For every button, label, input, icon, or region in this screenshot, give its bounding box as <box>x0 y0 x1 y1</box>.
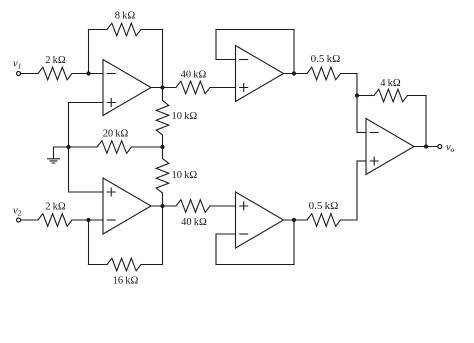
wire U1 output to 40k <box>151 87 176 89</box>
svg-text:2 kΩ: 2 kΩ <box>45 55 66 66</box>
node B junction dot (U1 out / 8k / 10k / 40k) <box>160 85 164 89</box>
resistor 40 kOhm (top) <box>176 81 210 94</box>
svg-text:40 kΩ: 40 kΩ <box>181 70 207 81</box>
wire R 2k to op-amp U1 inverting input, junction at node A <box>72 73 103 75</box>
svg-text:16 kΩ: 16 kΩ <box>113 276 139 287</box>
wire U4 output to node J <box>284 219 308 221</box>
wire into U5 inverting input <box>357 132 366 134</box>
resistor 40 kOhm (bottom) <box>176 200 210 213</box>
node v1 input terminal <box>17 72 21 76</box>
svg-text:0.5 kΩ: 0.5 kΩ <box>311 53 341 65</box>
svg-text:2 kΩ: 2 kΩ <box>45 202 66 213</box>
resistor 20 kOhm <box>97 141 132 154</box>
wire 0.5k bottom to corner <box>341 219 358 221</box>
wire U2 output to 40k <box>151 205 176 207</box>
wire U3 feedback down to inverting input level <box>215 30 217 60</box>
wire U4 feedback bottom rail <box>216 264 294 266</box>
wire 16k feedback up to U2 output node E <box>162 206 164 265</box>
wire 4k right segment <box>408 95 427 97</box>
wire node A up to 8k feedback rail <box>88 30 90 74</box>
wire up to U5 noninverting input <box>356 161 358 220</box>
op-amp U4 (bottom buffer, plus on top) <box>236 192 284 248</box>
resistor 10 kOhm (lower) <box>156 159 169 194</box>
resistor 4 kOhm <box>374 89 408 102</box>
wire node G to 4k <box>357 95 374 97</box>
node H junction dot (U5 out / 4k) <box>424 144 428 148</box>
resistor 10 kOhm (upper) <box>156 101 169 136</box>
wire 8k rail right segment <box>141 29 163 31</box>
wire 20k to node D <box>132 146 163 148</box>
resistor 16 kOhm <box>107 258 141 271</box>
node D junction dot (10k/10k/20k) <box>160 145 164 149</box>
node J junction dot (U4 out / feedback / 0.5k) <box>292 218 296 222</box>
wire lower 10k to node E <box>162 193 164 206</box>
wire U4 feedback up to inverting input level <box>215 234 217 265</box>
svg-text:0.5 kΩ: 0.5 kΩ <box>309 200 339 212</box>
wire node D down to lower 10k <box>162 147 164 159</box>
wire 0.5k top to corner <box>341 73 358 75</box>
wire node I down to 16k rail <box>88 220 90 265</box>
wire v2 terminal to R 2k <box>21 219 38 221</box>
wire 40k to buffer U4 noninverting input <box>210 205 236 207</box>
wire down to U5 inverting input, through node G <box>356 74 358 133</box>
wire upper 10k to node D <box>162 135 164 147</box>
wire 8k rail left segment <box>89 29 108 31</box>
ground symbol <box>48 147 60 163</box>
wire v1 terminal to R 2k <box>21 73 38 75</box>
svg-text:4 kΩ: 4 kΩ <box>380 78 401 89</box>
resistor 8 kOhm <box>107 23 141 36</box>
op-amp U3 (top buffer, minus on top) <box>236 46 284 102</box>
wire 16k rail right segment <box>141 264 163 266</box>
node I junction dot <box>86 218 90 222</box>
svg-text:40 kΩ: 40 kΩ <box>181 217 207 228</box>
svg-text:v1: v1 <box>13 59 21 71</box>
svg-text:20 kΩ: 20 kΩ <box>103 129 129 140</box>
wire into U5 noninverting input <box>357 160 366 162</box>
resistor 0.5 kOhm (bottom) <box>307 214 341 227</box>
wire U4 feedback into inverting input <box>216 233 236 235</box>
node E junction dot (U2 out / 16k / 10k / 40k) <box>160 204 164 208</box>
svg-text:8 kΩ: 8 kΩ <box>115 11 136 22</box>
op-amp U5 (output stage, minus on top) <box>366 119 414 175</box>
resistor 0.5 kOhm (top) <box>307 67 341 80</box>
wire U3 feedback into inverting input <box>216 59 236 61</box>
wire 8k feedback down to U1 output node B <box>162 30 164 88</box>
node G junction dot (0.5k / 4k feedback) <box>355 93 359 97</box>
wire vertical bus x=68.5 from U1 + input to U2 + input <box>68 103 70 193</box>
resistor 2 kOhm (bottom) <box>38 214 72 227</box>
wire 40k to buffer U3 noninverting input <box>210 87 236 89</box>
svg-text:10 kΩ: 10 kΩ <box>172 111 198 122</box>
wire 16k rail left segment <box>89 264 108 266</box>
svg-text:10 kΩ: 10 kΩ <box>172 170 198 181</box>
node C junction dot (bus/20k/ground) <box>66 145 70 149</box>
node F junction dot (U3 out / feedback / 0.5k) <box>292 71 296 75</box>
wire U3 output to node F <box>284 73 308 75</box>
wire vertical bus to U2 noninverting input <box>69 191 104 193</box>
wire ground rail left segment <box>54 146 98 148</box>
wire U1 noninverting input to vertical bus <box>69 102 104 104</box>
resistor 2 kOhm (top) <box>38 67 72 80</box>
op-amp U2 (bottom left, plus on top) <box>103 178 151 234</box>
node v2 input terminal <box>17 218 21 222</box>
node vo output terminal <box>438 145 442 149</box>
wire U3 feedback top rail <box>216 29 294 31</box>
wire R 2k to op-amp U2 inverting input, junction at node I <box>72 219 103 221</box>
svg-text:v2: v2 <box>13 206 22 218</box>
wire U5 output to terminal <box>414 146 438 148</box>
wire U3 feedback up from node F <box>293 30 295 74</box>
node A junction dot <box>86 71 90 75</box>
svg-text:vo: vo <box>446 142 455 154</box>
wire U4 feedback down from node J <box>293 220 295 265</box>
wire 4k feedback down to output node H <box>425 96 427 147</box>
wire node B down to upper 10k <box>162 88 164 101</box>
op-amp U1 (top left, minus on top) <box>103 60 151 116</box>
